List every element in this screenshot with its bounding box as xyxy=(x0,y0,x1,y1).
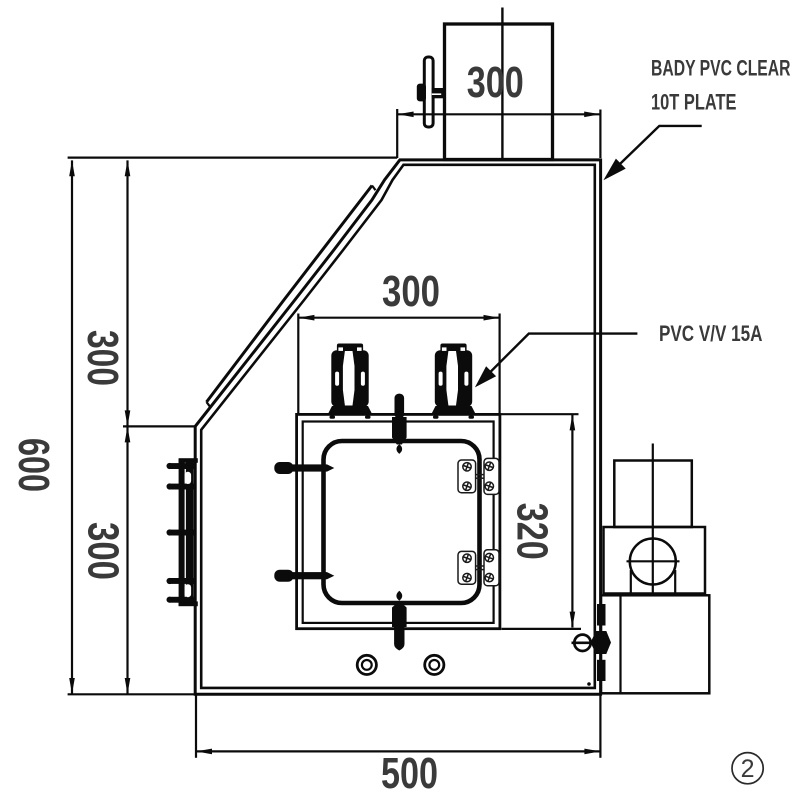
duct centerline xyxy=(501,8,503,160)
svg-text:320: 320 xyxy=(507,503,556,560)
dim 500 extension left xyxy=(195,695,197,758)
blower circle xyxy=(630,539,676,585)
dimension 300 duct line xyxy=(398,113,600,115)
dim 600 extension bottom xyxy=(68,693,195,695)
svg-text:2: 2 xyxy=(741,755,755,783)
damper connector xyxy=(432,88,444,98)
dim 600 line xyxy=(71,160,73,694)
dim 300 window extension right xyxy=(499,314,501,415)
clamp left upper xyxy=(274,462,334,474)
svg-text:300: 300 xyxy=(467,58,524,107)
drain circle right xyxy=(425,655,444,674)
damper pivot xyxy=(417,84,426,102)
valve V1 xyxy=(328,344,371,419)
latch xyxy=(572,604,612,686)
dim 320 extension top xyxy=(499,413,579,415)
duct xyxy=(445,24,553,160)
dim 600 text xyxy=(9,438,58,492)
sheet number 2 xyxy=(732,753,763,784)
dim 300 window line xyxy=(299,317,500,319)
valve V2 xyxy=(432,344,475,419)
svg-text:300: 300 xyxy=(78,330,127,386)
blower bottom box xyxy=(601,595,709,693)
window outer frame xyxy=(297,414,500,628)
leader PVC V/V 15A xyxy=(479,334,638,384)
dim 300 lower text xyxy=(79,522,128,580)
svg-text:600: 600 xyxy=(9,438,58,492)
damper handle slot xyxy=(424,57,433,127)
svg-text:300: 300 xyxy=(79,522,128,580)
door hinge left wall xyxy=(167,458,198,606)
dim 300/300 mid tick xyxy=(123,425,195,427)
svg-text:BADY PVC CLEAR: BADY PVC CLEAR xyxy=(651,55,791,80)
dim 300/300 left line xyxy=(126,160,128,694)
clamp top xyxy=(392,394,407,454)
dim 500 extension right xyxy=(599,695,601,758)
dim 600 extension top xyxy=(68,157,398,159)
hinge upper xyxy=(458,458,499,494)
clamp left lower xyxy=(274,570,334,582)
svg-text:PVC V/V 15A: PVC V/V 15A xyxy=(659,321,763,346)
slant flap xyxy=(207,186,373,403)
dimension 300 duct extension right xyxy=(599,110,601,159)
enclosure outer wall xyxy=(195,160,600,694)
enclosure inner wall xyxy=(201,165,595,688)
svg-text:500: 500 xyxy=(381,749,438,798)
window inner frame xyxy=(303,422,494,623)
leader to top plate xyxy=(608,126,702,176)
dim 320 extension bottom xyxy=(502,628,582,630)
clamp bottom xyxy=(392,591,407,651)
dimension 300 duct extension left xyxy=(396,109,398,158)
dim 300 window extension left xyxy=(297,314,299,415)
dim 320 line xyxy=(571,415,573,628)
hinge lower xyxy=(458,550,499,586)
blower centerline xyxy=(652,444,654,594)
dim 320 text xyxy=(507,503,556,560)
dim 300 upper text xyxy=(78,330,127,386)
drain circle left xyxy=(357,655,376,674)
dim 500 line xyxy=(196,750,600,752)
blower mid box xyxy=(604,527,706,594)
blower duct U xyxy=(630,570,632,594)
svg-text:300: 300 xyxy=(382,267,440,316)
blower top box xyxy=(614,461,692,528)
window glass door xyxy=(324,441,480,603)
svg-text:10T PLATE: 10T PLATE xyxy=(651,90,737,115)
